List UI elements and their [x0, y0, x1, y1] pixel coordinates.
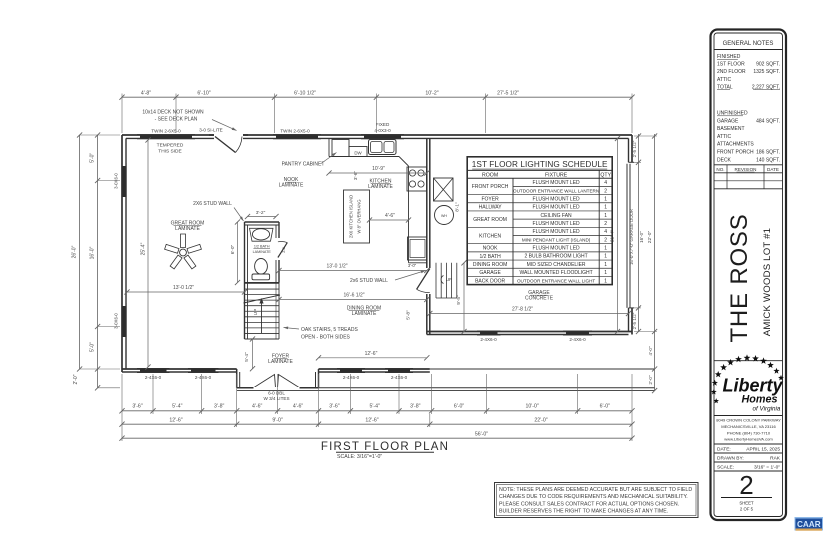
svg-text:DECK: DECK — [717, 157, 732, 163]
svg-text:LAMINATE: LAMINATE — [268, 359, 293, 365]
svg-text:4: 4 — [604, 180, 607, 186]
svg-text:2-4X6-0: 2-4X6-0 — [569, 337, 586, 342]
svg-text:1: 1 — [604, 278, 607, 284]
svg-text:PANTRY CABINET: PANTRY CABINET — [282, 162, 325, 168]
svg-text:DRAWN BY:: DRAWN BY: — [717, 456, 744, 462]
svg-text:2'-5 1/2": 2'-5 1/2" — [632, 140, 637, 157]
svg-text:FLUSH MOUNT LED: FLUSH MOUNT LED — [533, 205, 581, 211]
svg-text:3-0 SI-LITE: 3-0 SI-LITE — [199, 128, 223, 133]
svg-text:10'-9": 10'-9" — [372, 166, 385, 172]
svg-text:LAMINATE: LAMINATE — [279, 183, 304, 189]
svg-text:Liberty: Liberty — [722, 376, 783, 396]
svg-text:TWIN 2-6X5-0: TWIN 2-6X5-0 — [280, 128, 310, 133]
svg-text:FRONT PORCH: FRONT PORCH — [717, 150, 754, 156]
svg-text:5'-8": 5'-8" — [406, 310, 412, 320]
svg-text:ROOM: ROOM — [482, 172, 498, 178]
svg-text:OUTDOOR ENTRANCE WALL LANTERN: OUTDOOR ENTRANCE WALL LANTERN — [513, 188, 599, 193]
svg-text:4-0X3-0: 4-0X3-0 — [374, 128, 391, 133]
svg-text:10x14 DECK NOT SHOWN: 10x14 DECK NOT SHOWN — [142, 110, 204, 116]
svg-text:OAK STAIRS, 5 TREADS: OAK STAIRS, 5 TREADS — [301, 327, 358, 333]
svg-text:5'-4": 5'-4" — [370, 404, 380, 410]
svg-text:2-4X6-0: 2-4X6-0 — [480, 337, 497, 342]
svg-text:2: 2 — [604, 221, 607, 227]
svg-text:1325 SQFT.: 1325 SQFT. — [753, 69, 780, 75]
svg-text:1ST FLOOR: 1ST FLOOR — [717, 62, 745, 68]
svg-text:LAMINATE: LAMINATE — [368, 184, 393, 190]
svg-text:2-0: 2-0 — [281, 246, 286, 253]
svg-text:4'-0": 4'-0" — [648, 346, 653, 356]
svg-text:BASEMENT: BASEMENT — [717, 126, 745, 132]
svg-text:REVISION: REVISION — [735, 167, 757, 172]
svg-text:5'-0": 5'-0" — [89, 342, 95, 352]
svg-text:5'-4": 5'-4" — [244, 352, 250, 362]
svg-text:FLUSH MOUNT LED: FLUSH MOUNT LED — [533, 246, 581, 252]
svg-text:DATE: DATE — [767, 167, 779, 172]
svg-text:12'-6": 12'-6" — [365, 417, 378, 423]
svg-text:2 BULB BATHROOM LIGHT: 2 BULB BATHROOM LIGHT — [524, 254, 587, 260]
svg-text:www.LibertyHomesVA.com: www.LibertyHomesVA.com — [724, 437, 773, 442]
svg-text:3'-6": 3'-6" — [132, 404, 142, 410]
svg-text:2 OF 5: 2 OF 5 — [740, 507, 754, 512]
svg-text:10'-2": 10'-2" — [425, 91, 438, 97]
svg-text:22'-0": 22'-0" — [534, 417, 547, 423]
svg-text:GARAGE: GARAGE — [479, 270, 501, 276]
svg-text:13'-0 1/2": 13'-0 1/2" — [173, 285, 194, 291]
svg-text:4'-6": 4'-6" — [293, 404, 303, 410]
svg-text:BUILDER RESERVES THE RIGHT TO: BUILDER RESERVES THE RIGHT TO MAKE CHANG… — [499, 509, 668, 515]
svg-text:SHEET: SHEET — [739, 501, 754, 506]
svg-text:LAMINATE: LAMINATE — [253, 250, 272, 254]
svg-text:MINI PENDANT LIGHT (ISLAND): MINI PENDANT LIGHT (ISLAND) — [522, 237, 591, 242]
svg-text:LAMINATE: LAMINATE — [175, 226, 200, 232]
svg-text:TEMPERED: TEMPERED — [157, 143, 184, 149]
svg-text:1: 1 — [604, 270, 607, 276]
svg-text:12'-6": 12'-6" — [365, 351, 378, 357]
svg-text:2X6 KITCHEN ISLAND: 2X6 KITCHEN ISLAND — [349, 195, 354, 238]
svg-text:CONCRETE: CONCRETE — [525, 296, 554, 302]
svg-text:THIS SIDE: THIS SIDE — [158, 149, 181, 155]
svg-text:26'-0": 26'-0" — [71, 245, 77, 258]
svg-text:1ST FLOOR LIGHTING SCHEDULE: 1ST FLOOR LIGHTING SCHEDULE — [472, 160, 608, 169]
svg-text:4'-8": 4'-8" — [141, 91, 151, 97]
svg-text:6-0 DBL: 6-0 DBL — [268, 390, 285, 395]
svg-text:1: 1 — [604, 196, 607, 202]
svg-text:186 SQFT.: 186 SQFT. — [756, 150, 780, 156]
svg-text:APRIL 15, 2025: APRIL 15, 2025 — [746, 447, 780, 453]
svg-text:FLUSH MOUNT LED: FLUSH MOUNT LED — [533, 229, 581, 235]
svg-text:484 SQFT.: 484 SQFT. — [756, 118, 780, 124]
svg-text:FIXED: FIXED — [376, 122, 390, 127]
svg-text:3'-2": 3'-2" — [256, 210, 266, 216]
svg-text:OPEN - BOTH SIDES: OPEN - BOTH SIDES — [301, 335, 351, 341]
svg-text:27'-5 1/2": 27'-5 1/2" — [497, 91, 519, 97]
svg-text:6'-0": 6'-0" — [454, 404, 464, 410]
svg-text:12'-6": 12'-6" — [169, 417, 182, 423]
svg-text:140 SQFT.: 140 SQFT. — [756, 157, 780, 163]
svg-text:2: 2 — [739, 470, 753, 500]
svg-text:4'-6": 4'-6" — [252, 404, 262, 410]
svg-text:10'-0": 10'-0" — [526, 404, 539, 410]
svg-text:2: 2 — [604, 188, 607, 194]
svg-text:56'-0": 56'-0" — [475, 432, 488, 438]
svg-text:FIXTURE: FIXTURE — [545, 172, 568, 178]
svg-text:WALL MOUNTED FLOODLIGHT: WALL MOUNTED FLOODLIGHT — [519, 270, 592, 276]
svg-text:BACK DOOR: BACK DOOR — [475, 278, 505, 284]
svg-text:DW: DW — [354, 151, 362, 156]
svg-text:LAMINATE: LAMINATE — [352, 311, 377, 317]
svg-text:2'-5 1/2": 2'-5 1/2" — [632, 312, 637, 329]
svg-text:SCALE:: SCALE: — [717, 465, 734, 471]
svg-text:6'-10": 6'-10" — [197, 91, 210, 97]
svg-text:2x6 STUD WALL: 2x6 STUD WALL — [350, 278, 388, 284]
svg-text:CHANGES DUE TO CODE REQUIREMEN: CHANGES DUE TO CODE REQUIREMENTS AND MEC… — [499, 494, 688, 500]
svg-text:ATTIC: ATTIC — [717, 134, 731, 140]
svg-text:1: 1 — [604, 262, 607, 268]
svg-text:2'-0": 2'-0" — [73, 374, 79, 384]
svg-text:16'-0": 16'-0" — [89, 246, 95, 259]
svg-text:RAK: RAK — [770, 456, 781, 462]
svg-text:22'-0": 22'-0" — [647, 231, 653, 244]
svg-text:4: 4 — [604, 229, 607, 235]
svg-text:ATTIC: ATTIC — [717, 77, 731, 83]
svg-text:25'-4": 25'-4" — [141, 242, 147, 255]
svg-text:AMICK WOODS LOT #1: AMICK WOODS LOT #1 — [762, 228, 773, 336]
svg-text:1/2 BATH: 1/2 BATH — [254, 245, 270, 249]
svg-text:5'-0": 5'-0" — [89, 153, 95, 163]
svg-text:2-4X6-0: 2-4X6-0 — [343, 375, 360, 380]
svg-text:9'-0": 9'-0" — [272, 417, 282, 423]
svg-text:6'-0": 6'-0" — [600, 404, 610, 410]
svg-text:MID SIZED CHANDELIER: MID SIZED CHANDELIER — [527, 262, 586, 268]
svg-text:TWIN 2-6X5-0: TWIN 2-6X5-0 — [151, 128, 181, 133]
svg-text:3'-6": 3'-6" — [353, 171, 358, 181]
svg-text:FRONT PORCH: FRONT PORCH — [472, 184, 509, 190]
svg-text:3'-8": 3'-8" — [214, 404, 224, 410]
svg-text:GREAT ROOM: GREAT ROOM — [473, 217, 507, 223]
svg-text:NO.: NO. — [716, 167, 724, 172]
svg-text:FLUSH MOUNT LED: FLUSH MOUNT LED — [533, 221, 581, 227]
svg-text:NOOK: NOOK — [483, 246, 498, 252]
svg-text:2'-0": 2'-0" — [648, 375, 653, 385]
svg-text:of Virginia: of Virginia — [753, 406, 781, 413]
svg-text:8049 CROWN COLONY PARKWAY: 8049 CROWN COLONY PARKWAY — [716, 418, 781, 423]
svg-text:1/2 BATH: 1/2 BATH — [479, 254, 501, 260]
svg-text:THE ROSS: THE ROSS — [726, 213, 753, 342]
svg-text:DATE:: DATE: — [717, 447, 731, 453]
svg-text:MECHANICSVILLE, VA 23116: MECHANICSVILLE, VA 23116 — [721, 424, 776, 429]
svg-text:PLEASE CONSULT SALES CONTRACT: PLEASE CONSULT SALES CONTRACT FOR ACTUAL… — [499, 501, 679, 507]
svg-text:2X6 STUD WALL: 2X6 STUD WALL — [193, 201, 232, 207]
svg-text:HALLWAY: HALLWAY — [479, 205, 503, 211]
svg-text:13'-0 1/2": 13'-0 1/2" — [326, 264, 347, 270]
svg-text:SCALE: 3/16"=1'-0": SCALE: 3/16"=1'-0" — [337, 454, 382, 460]
svg-text:3'-0": 3'-0" — [408, 263, 417, 268]
svg-text:UP: UP — [253, 309, 258, 315]
svg-text:CEILING FAN: CEILING FAN — [541, 213, 573, 219]
svg-text:16'-0"X7'-0" GARAGE DOOR: 16'-0"X7'-0" GARAGE DOOR — [629, 209, 634, 265]
svg-text:FLUSH MOUNT LED: FLUSH MOUNT LED — [533, 180, 581, 186]
svg-text:KITCHEN: KITCHEN — [479, 233, 501, 239]
svg-text:3'-8": 3'-8" — [410, 404, 420, 410]
svg-text:2-4X6-0: 2-4X6-0 — [195, 375, 212, 380]
svg-text:CAAR: CAAR — [797, 520, 821, 529]
svg-text:WH: WH — [441, 214, 447, 218]
svg-text:OUTDOOR ENTRANCE WALL LIGHT: OUTDOOR ENTRANCE WALL LIGHT — [517, 278, 595, 283]
svg-text:DINING ROOM: DINING ROOM — [473, 262, 507, 268]
svg-text:2: 2 — [604, 237, 607, 243]
svg-text:3/16" = 1'-0": 3/16" = 1'-0" — [754, 465, 780, 471]
svg-text:6'-0": 6'-0" — [230, 244, 236, 254]
svg-text:QTY: QTY — [600, 172, 611, 178]
svg-text:902 SQFT.: 902 SQFT. — [756, 62, 780, 68]
svg-text:16'-0": 16'-0" — [639, 231, 644, 243]
svg-text:UP: UP — [446, 277, 452, 282]
svg-text:FIRST FLOOR PLAN: FIRST FLOOR PLAN — [321, 441, 449, 453]
svg-text:8'-1": 8'-1" — [455, 202, 461, 212]
svg-text:1: 1 — [604, 213, 607, 219]
svg-text:GENERAL NOTES: GENERAL NOTES — [723, 41, 774, 47]
svg-text:W 8" OVERHANG: W 8" OVERHANG — [357, 199, 362, 233]
svg-text:9'-5": 9'-5" — [456, 295, 462, 305]
svg-text:ATTACHMENTS: ATTACHMENTS — [717, 142, 754, 148]
svg-text:4'-6": 4'-6" — [385, 213, 395, 219]
svg-text:5'-4": 5'-4" — [172, 404, 182, 410]
svg-text:3'-6": 3'-6" — [329, 404, 339, 410]
svg-text:GARAGE: GARAGE — [717, 118, 739, 124]
svg-text:FLUSH MOUNT LED: FLUSH MOUNT LED — [533, 196, 581, 202]
svg-text:1: 1 — [604, 205, 607, 211]
svg-text:6'-10 1/2": 6'-10 1/2" — [294, 91, 316, 97]
svg-text:2ND FLOOR: 2ND FLOOR — [717, 69, 746, 75]
svg-text:1: 1 — [604, 246, 607, 252]
svg-text:16'-6 1/2": 16'-6 1/2" — [343, 293, 364, 299]
svg-text:27'-8 1/2": 27'-8 1/2" — [512, 307, 533, 313]
svg-text:NOTE: THESE PLANS ARE DEEMED A: NOTE: THESE PLANS ARE DEEMED ACCURATE BU… — [499, 487, 692, 493]
svg-text:1: 1 — [604, 254, 607, 260]
svg-text:W 3/4 LITES: W 3/4 LITES — [263, 396, 289, 401]
svg-text:FOYER: FOYER — [481, 196, 499, 202]
svg-text:Homes: Homes — [741, 394, 777, 406]
svg-text:PHONE (804) 730-7710: PHONE (804) 730-7710 — [727, 430, 771, 435]
